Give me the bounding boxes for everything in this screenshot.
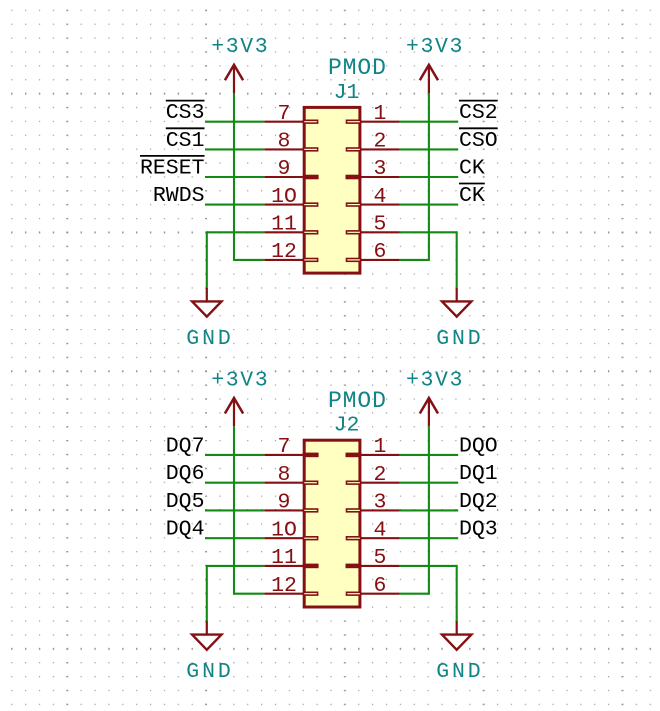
svg-text:8: 8	[278, 463, 291, 487]
svg-text:2: 2	[374, 130, 387, 154]
wire to pin 10 of J1	[205, 204, 264, 206]
svg-text:9: 9	[278, 157, 291, 181]
svg-text:DQ7: DQ7	[166, 434, 205, 458]
wire pin 11 of J2 to GND	[207, 565, 264, 567]
svg-text:9: 9	[278, 491, 291, 515]
connector J2 body	[304, 440, 360, 607]
wire to pin 9 of J1	[205, 176, 264, 178]
pin 12 of J2 (left)	[264, 593, 304, 595]
svg-text:4: 4	[374, 518, 387, 542]
connector J1 body	[304, 107, 360, 273]
wire pin 11 of J1 to GND	[207, 231, 264, 233]
power symbol GND (left of J2)	[206, 621, 208, 634]
svg-text:DQ6: DQ6	[166, 462, 205, 486]
svg-text:11: 11	[271, 213, 297, 237]
wire pin 5 of J2 to GND	[400, 565, 457, 567]
wire to pin 2 of J2	[400, 482, 458, 484]
svg-text:6: 6	[374, 574, 387, 598]
svg-text:+3V3: +3V3	[211, 368, 269, 392]
svg-text:DQ4: DQ4	[166, 518, 205, 542]
pin 5 of J1 (right)	[360, 231, 400, 233]
wire to pin 3 of J1	[400, 176, 458, 178]
svg-text:1O: 1O	[271, 185, 297, 209]
pin 10 of J1 (left)	[264, 204, 304, 206]
wire to pin 8 of J1	[205, 148, 264, 150]
pin 7 of J1 (left)	[264, 121, 304, 123]
svg-text:7: 7	[278, 102, 291, 126]
pin 4 of J2 (right)	[360, 537, 400, 539]
power symbol GND (left of J1)	[206, 288, 208, 301]
svg-text:CSO: CSO	[459, 129, 498, 153]
svg-text:2: 2	[374, 463, 387, 487]
pin 11 of J1 (left)	[264, 231, 304, 233]
pin 9 of J2 (left)	[264, 509, 304, 511]
svg-text:DQ5: DQ5	[166, 490, 205, 514]
svg-text:1O: 1O	[271, 518, 297, 542]
svg-text:RESET: RESET	[140, 157, 205, 181]
wire pin 12 of J1 to +3V3	[234, 259, 264, 261]
wire to pin 7 of J1	[205, 121, 264, 123]
svg-text:8: 8	[278, 130, 291, 154]
pin 3 of J1 (right)	[360, 176, 400, 178]
pin 10 of J2 (left)	[264, 537, 304, 539]
svg-text:PMOD: PMOD	[328, 55, 387, 81]
wire pin 5 of J1 to GND	[400, 231, 457, 233]
svg-text:12: 12	[271, 240, 297, 264]
svg-text:GND: GND	[186, 327, 233, 351]
svg-text:5: 5	[374, 213, 387, 237]
svg-text:11: 11	[271, 546, 297, 570]
svg-text:GND: GND	[436, 327, 483, 351]
wire to pin 2 of J1	[400, 148, 458, 150]
power symbol GND (right of J2)	[456, 621, 458, 634]
wire to pin 7 of J2	[205, 454, 264, 456]
svg-text:12: 12	[271, 574, 297, 598]
pin 6 of J2 (right)	[360, 593, 400, 595]
svg-text:6: 6	[374, 240, 387, 264]
svg-text:CK: CK	[459, 157, 485, 181]
svg-text:CS1: CS1	[166, 129, 205, 153]
power symbol +3V3 (left of J2)	[233, 398, 235, 426]
wire to pin 1 of J1	[400, 121, 458, 123]
svg-text:+3V3: +3V3	[406, 368, 464, 392]
svg-text:3: 3	[374, 491, 387, 515]
power symbol +3V3 (right of J2)	[428, 398, 430, 426]
power symbol +3V3 (right of J1)	[428, 65, 430, 93]
svg-text:GND: GND	[436, 660, 483, 684]
svg-text:+3V3: +3V3	[406, 35, 464, 59]
pin 9 of J1 (left)	[264, 176, 304, 178]
svg-text:CS2: CS2	[459, 101, 498, 125]
pin 4 of J1 (right)	[360, 204, 400, 206]
pin 1 of J2 (right)	[360, 454, 400, 456]
svg-text:RWDS: RWDS	[153, 184, 205, 208]
wire to pin 4 of J2	[400, 537, 458, 539]
svg-text:7: 7	[278, 435, 291, 459]
wire pin 6 of J1 to +3V3	[400, 259, 429, 261]
pin 7 of J2 (left)	[264, 454, 304, 456]
wire to pin 10 of J2	[205, 537, 264, 539]
pin 11 of J2 (left)	[264, 565, 304, 567]
svg-text:DQ2: DQ2	[459, 490, 498, 514]
pin 2 of J2 (right)	[360, 482, 400, 484]
svg-text:CS3: CS3	[166, 101, 205, 125]
svg-text:DQ3: DQ3	[459, 518, 498, 542]
svg-text:CK: CK	[459, 184, 485, 208]
wire to pin 1 of J2	[400, 454, 458, 456]
svg-text:+3V3: +3V3	[211, 35, 269, 59]
svg-text:DQ1: DQ1	[459, 462, 498, 486]
wire to pin 9 of J2	[205, 509, 264, 511]
pin 12 of J1 (left)	[264, 259, 304, 261]
wire to pin 4 of J1	[400, 204, 458, 206]
wire to pin 3 of J2	[400, 509, 458, 511]
svg-text:1: 1	[374, 435, 387, 459]
svg-text:PMOD: PMOD	[328, 388, 387, 414]
pin 8 of J2 (left)	[264, 482, 304, 484]
svg-text:J2: J2	[334, 414, 360, 438]
pin 3 of J2 (right)	[360, 509, 400, 511]
pin 6 of J1 (right)	[360, 259, 400, 261]
svg-text:1: 1	[374, 102, 387, 126]
svg-text:J1: J1	[334, 81, 360, 105]
pin 8 of J1 (left)	[264, 148, 304, 150]
svg-text:DQO: DQO	[459, 434, 498, 458]
wire pin 12 of J2 to +3V3	[234, 593, 264, 595]
pin 2 of J1 (right)	[360, 148, 400, 150]
wire pin 6 of J2 to +3V3	[400, 593, 429, 595]
wire to pin 8 of J2	[205, 482, 264, 484]
svg-text:4: 4	[374, 185, 387, 209]
svg-text:3: 3	[374, 157, 387, 181]
pin 1 of J1 (right)	[360, 121, 400, 123]
pin 5 of J2 (right)	[360, 565, 400, 567]
power symbol +3V3 (left of J1)	[233, 65, 235, 93]
svg-text:5: 5	[374, 546, 387, 570]
svg-text:GND: GND	[186, 660, 233, 684]
power symbol GND (right of J1)	[456, 288, 458, 301]
